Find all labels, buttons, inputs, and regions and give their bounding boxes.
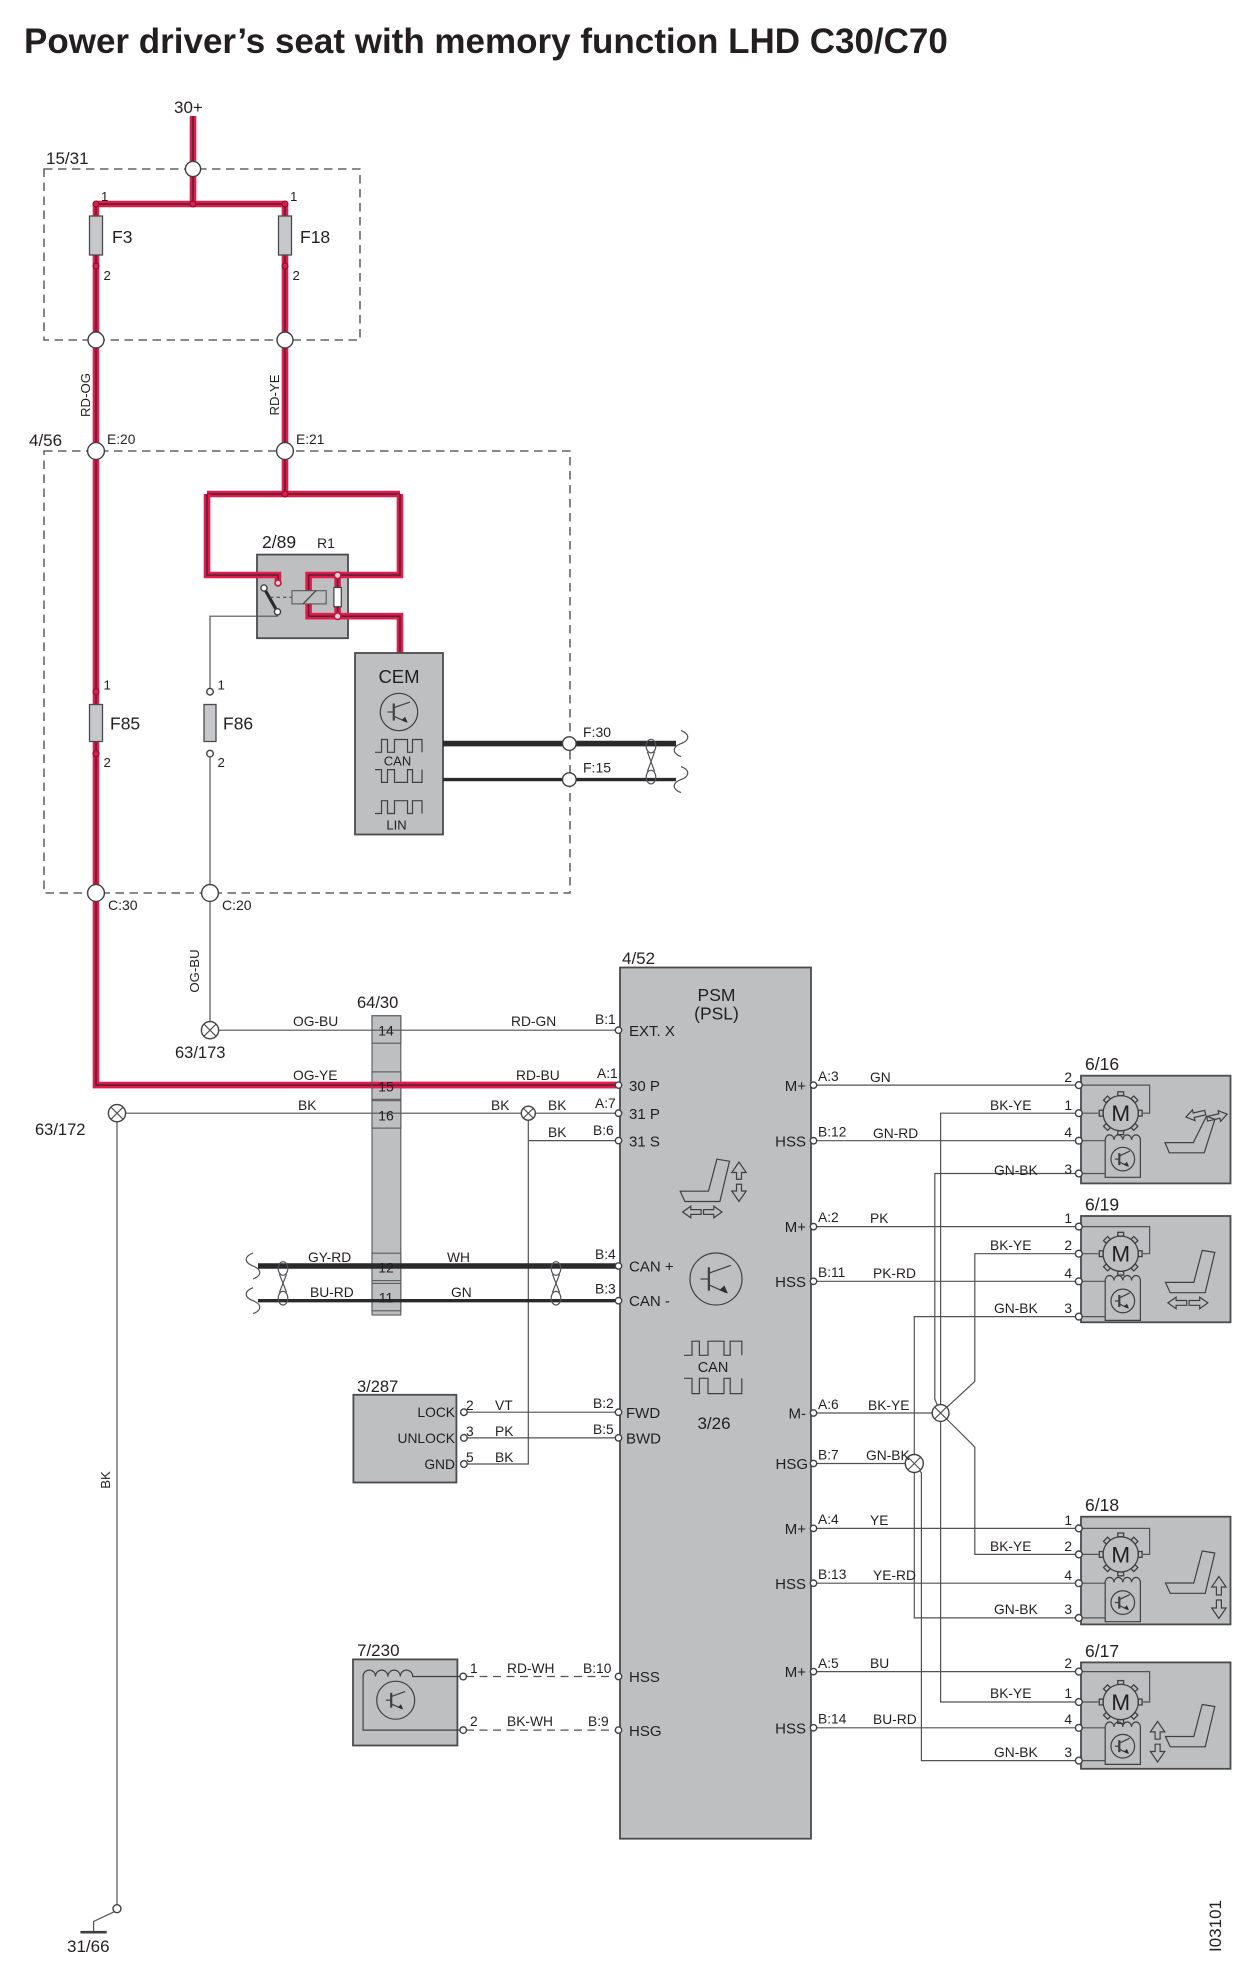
connector 64/30 — [372, 1016, 401, 1315]
CEM driver transistor — [380, 693, 417, 730]
pin 16 — [372, 1101, 401, 1128]
svg-text:2: 2 — [104, 755, 111, 770]
svg-text:6/19: 6/19 — [1085, 1195, 1119, 1215]
clutch K — [1105, 1577, 1140, 1621]
motor M — [1103, 1096, 1138, 1131]
motor M — [1103, 1684, 1138, 1719]
7/230 coil + transistor — [363, 1670, 462, 1730]
svg-text:GND: GND — [424, 1457, 455, 1472]
svg-text:E:20: E:20 — [107, 432, 136, 447]
svg-text:B:5: B:5 — [593, 1422, 614, 1437]
svg-text:LOCK: LOCK — [417, 1405, 455, 1420]
ground 31/66 — [94, 1912, 115, 1933]
wire M+ A:4 YE to 6/18 pin1 — [815, 1527, 1078, 1529]
wire M+ A:5 BU to 6/17 pin2 — [815, 1671, 1078, 1673]
svg-text:F85: F85 — [110, 714, 140, 734]
svg-text:GN-BK: GN-BK — [994, 1163, 1038, 1178]
svg-text:B:2: B:2 — [593, 1396, 614, 1411]
fuse F86 — [207, 688, 214, 695]
svg-text:3/287: 3/287 — [357, 1378, 398, 1396]
seat motor 6/16 — [1081, 1076, 1231, 1184]
svg-text:A:4: A:4 — [818, 1512, 839, 1527]
svg-text:BK-YE: BK-YE — [990, 1098, 1031, 1113]
wire CAN+ GY-RD/WH (thick) — [258, 1263, 616, 1269]
wire to clutch — [1081, 1727, 1105, 1729]
pin LOCK 2 / wire VT — [464, 1411, 616, 1413]
wire HSS B:13 YE-RD to 6/18 pin4 — [815, 1582, 1078, 1584]
wire BK-YE branch to 6/19 pin2 — [941, 1254, 1077, 1413]
svg-text:4: 4 — [1064, 1712, 1072, 1727]
svg-text:15: 15 — [378, 1079, 394, 1095]
svg-text:GN-BK: GN-BK — [994, 1602, 1038, 1617]
svg-text:CAN: CAN — [698, 1360, 729, 1376]
wire break F:30 — [674, 731, 688, 757]
wire GN-BK net 6/19 pin3 to 6/18 pin3 — [914, 1317, 1077, 1618]
seat icon — [1166, 1705, 1215, 1747]
svg-text:6/16: 6/16 — [1085, 1054, 1119, 1074]
svg-text:31/66: 31/66 — [67, 1937, 110, 1956]
fuse F3 — [93, 204, 100, 340]
svg-text:BK: BK — [495, 1450, 514, 1465]
junction connector 15/31 bottom right — [282, 340, 289, 451]
twisted pair symbol left — [278, 1262, 288, 1276]
svg-text:BK: BK — [98, 1471, 113, 1489]
pin 2 / wire BK-WH (dashed) — [466, 1729, 613, 1731]
svg-text:HSS: HSS — [629, 1669, 660, 1686]
relay pins (red) — [275, 580, 281, 586]
svg-text:A:7: A:7 — [595, 1096, 616, 1111]
svg-text:UNLOCK: UNLOCK — [398, 1431, 456, 1446]
svg-text:HSS: HSS — [775, 1274, 806, 1291]
svg-text:GN-RD: GN-RD — [873, 1126, 918, 1141]
motor M — [1103, 1537, 1138, 1572]
svg-text:14: 14 — [378, 1023, 394, 1039]
wire break BU-RD — [246, 1288, 260, 1314]
svg-text:M: M — [1111, 1542, 1130, 1567]
svg-text:1: 1 — [101, 189, 108, 204]
svg-text:BK: BK — [491, 1098, 510, 1113]
wire BK down to ground — [116, 1113, 118, 1909]
relay coil — [292, 591, 326, 604]
wire F:15 — [443, 778, 676, 781]
svg-text:HSG: HSG — [775, 1456, 808, 1473]
pin UNLOCK 3 / wire PK — [464, 1437, 616, 1439]
connector F:15 — [563, 773, 577, 787]
fuse box 15/31 (dashed) — [44, 169, 360, 340]
svg-text:GY-RD: GY-RD — [308, 1250, 351, 1265]
wire BK to 31S and 3/287 GND — [464, 1113, 528, 1464]
svg-text:4: 4 — [1064, 1125, 1072, 1140]
svg-text:3: 3 — [1064, 1602, 1072, 1617]
svg-text:BU-RD: BU-RD — [873, 1712, 917, 1727]
pin 1 / wire RD-WH (dashed) — [466, 1676, 613, 1678]
wire M+ A:3 GN to 6/16 pin2 — [815, 1084, 1078, 1086]
seat icon — [1166, 1250, 1215, 1292]
svg-text:LIN: LIN — [386, 818, 406, 833]
svg-text:RD-BU: RD-BU — [516, 1068, 560, 1083]
svg-text:M+: M+ — [785, 1219, 806, 1236]
motor loop wire — [1081, 1227, 1150, 1254]
wire to clutch — [1081, 1280, 1105, 1282]
PSM seat adjust icon — [680, 1159, 729, 1201]
svg-text:B:9: B:9 — [588, 1714, 609, 1729]
wire HSS B:14 BU-RD to 6/17 pin4 — [815, 1727, 1078, 1729]
PSM CAN symbol — [684, 1341, 742, 1355]
svg-text:1: 1 — [290, 189, 297, 204]
svg-text:B:3: B:3 — [595, 1282, 616, 1297]
wire relay internal (red) — [309, 575, 338, 616]
svg-text:F:15: F:15 — [583, 760, 611, 776]
svg-text:1: 1 — [218, 678, 225, 693]
svg-text:M+: M+ — [785, 1521, 806, 1538]
junction dot at 30+ bar — [190, 201, 196, 207]
svg-text:RD-OG: RD-OG — [78, 373, 93, 417]
wire HSG B:7 GN-BK to splice — [815, 1463, 915, 1465]
svg-text:2: 2 — [293, 268, 300, 283]
svg-text:GN: GN — [451, 1285, 472, 1300]
splice HSG (crossed) — [905, 1455, 923, 1473]
svg-text:4: 4 — [1064, 1568, 1072, 1583]
relay switch contact — [264, 588, 277, 612]
svg-text:OG-BU: OG-BU — [293, 1014, 338, 1029]
clutch K — [1105, 1722, 1140, 1764]
wire BK row 31P — [117, 1112, 616, 1114]
wire F86 to C:20 — [209, 757, 211, 1030]
svg-text:PK: PK — [495, 1424, 514, 1439]
switch module 3/287 — [353, 1395, 456, 1483]
splice M- (crossed) — [932, 1405, 949, 1422]
connector C:20 — [202, 885, 219, 902]
svg-text:Power driver’s seat with memor: Power driver’s seat with memory function… — [24, 22, 948, 61]
svg-text:2: 2 — [1064, 1539, 1072, 1554]
pins — [1075, 1223, 1082, 1230]
PSM pin circles left — [615, 1027, 621, 1033]
svg-text:BK: BK — [548, 1098, 567, 1113]
svg-text:B:12: B:12 — [818, 1125, 846, 1140]
svg-text:B:11: B:11 — [818, 1265, 845, 1280]
svg-text:B:7: B:7 — [818, 1448, 839, 1463]
relay resistor — [334, 588, 341, 607]
svg-text:63/172: 63/172 — [35, 1121, 85, 1139]
svg-text:B:14: B:14 — [818, 1712, 847, 1727]
control module CEM — [355, 653, 443, 835]
svg-text:GN-BK: GN-BK — [866, 1448, 910, 1463]
wire BK-YE branch to 6/18 pin2 — [941, 1413, 1077, 1554]
svg-text:CAN +: CAN + — [629, 1259, 674, 1276]
sensor module 7/230 — [353, 1659, 457, 1745]
pin 14 — [372, 1016, 401, 1043]
svg-text:2: 2 — [1064, 1656, 1072, 1671]
svg-text:2: 2 — [218, 755, 225, 770]
svg-text:31 P: 31 P — [629, 1106, 660, 1123]
wire battery feed via F85 (red) — [93, 451, 100, 893]
svg-text:1: 1 — [104, 678, 111, 693]
wire RD-YE from E:21 to relay (red) — [282, 451, 289, 494]
twisted pair symbol — [646, 739, 656, 753]
svg-text:1: 1 — [470, 1661, 478, 1676]
wire CAN F:30 (thick) — [443, 741, 676, 747]
svg-text:BK-YE: BK-YE — [990, 1539, 1031, 1554]
svg-text:11: 11 — [379, 1290, 394, 1306]
relay coil link (dashed) — [270, 596, 292, 598]
svg-text:C:30: C:30 — [108, 897, 138, 913]
wire BK-YE net 6/16 pin1 to 6/17 pin1 — [941, 1113, 1077, 1702]
svg-text:BK-YE: BK-YE — [868, 1398, 909, 1413]
seat motor 6/18 — [1081, 1517, 1231, 1625]
wire OG-BU / RD-GN row to EXT.X — [210, 1029, 616, 1031]
junction box 4/56 (dashed) — [44, 451, 570, 893]
relay switch to F86 wire — [210, 614, 278, 692]
relay 2/89 R1 — [257, 555, 348, 639]
svg-text:3: 3 — [1064, 1301, 1072, 1316]
PSM pin circles right — [810, 1082, 816, 1088]
svg-text:3: 3 — [1064, 1162, 1072, 1177]
wire GN-BK 6/16 pin3 to M- splice — [935, 1174, 1077, 1414]
svg-text:BK-WH: BK-WH — [507, 1714, 553, 1729]
svg-text:WH: WH — [447, 1250, 470, 1265]
CEM CAN symbol — [375, 740, 422, 753]
svg-text:1: 1 — [1064, 1686, 1072, 1701]
svg-text:B:13: B:13 — [818, 1567, 847, 1582]
wire M+ A:2 PK to 6/19 pin1 — [815, 1226, 1078, 1228]
motor loop wire — [1081, 1528, 1150, 1554]
wire BK through pin 16 — [372, 1112, 401, 1114]
CEM LIN symbol — [375, 801, 422, 814]
svg-text:BK-YE: BK-YE — [990, 1238, 1031, 1253]
svg-text:BU: BU — [870, 1656, 889, 1671]
svg-text:F:30: F:30 — [583, 724, 611, 740]
svg-text:GN: GN — [870, 1070, 891, 1085]
svg-text:GN-BK: GN-BK — [994, 1301, 1038, 1316]
fuse F18 — [282, 204, 289, 340]
wire HSS B:11 PK-RD to 6/19 pin4 — [815, 1280, 1078, 1282]
motor M — [1103, 1236, 1138, 1271]
svg-text:M+: M+ — [785, 1664, 806, 1681]
wire to clutch — [1081, 1582, 1105, 1584]
wire RD-GN through pin 14 — [372, 1029, 401, 1031]
clutch K — [1105, 1135, 1140, 1177]
seat icon — [1166, 1551, 1215, 1593]
connector F:30 — [563, 737, 577, 751]
svg-text:I03101: I03101 — [1206, 1900, 1225, 1952]
svg-text:A:1: A:1 — [597, 1066, 618, 1081]
svg-text:4/56: 4/56 — [29, 431, 62, 450]
svg-text:30 P: 30 P — [629, 1078, 660, 1095]
svg-text:B:10: B:10 — [583, 1661, 612, 1676]
svg-text:2: 2 — [470, 1714, 478, 1729]
svg-text:A:3: A:3 — [818, 1069, 839, 1084]
pin 11 — [372, 1283, 401, 1310]
svg-text:12: 12 — [378, 1260, 394, 1276]
svg-text:BK-YE: BK-YE — [990, 1686, 1031, 1701]
junction connector 15/31 bottom left — [93, 340, 100, 451]
svg-text:A:5: A:5 — [818, 1656, 839, 1671]
svg-text:4/52: 4/52 — [622, 949, 655, 968]
svg-text:VT: VT — [495, 1398, 513, 1413]
svg-text:2: 2 — [1064, 1238, 1072, 1253]
svg-text:E:21: E:21 — [296, 432, 324, 447]
seat motor 6/17 — [1081, 1662, 1231, 1768]
svg-text:M+: M+ — [785, 1078, 806, 1095]
svg-text:B:4: B:4 — [595, 1247, 616, 1262]
svg-text:HSG: HSG — [629, 1723, 662, 1740]
svg-text:BU-RD: BU-RD — [310, 1285, 354, 1300]
svg-text:F86: F86 — [223, 714, 253, 734]
svg-text:31 S: 31 S — [629, 1134, 660, 1151]
svg-text:A:6: A:6 — [818, 1397, 839, 1412]
svg-text:OG-BU: OG-BU — [187, 949, 202, 992]
svg-text:15/31: 15/31 — [46, 149, 89, 168]
wire CAN- BU-RD/GN — [258, 1299, 616, 1302]
svg-text:RD-WH: RD-WH — [507, 1661, 555, 1676]
junction 30+ feed — [185, 161, 200, 176]
svg-text:RD-GN: RD-GN — [511, 1014, 556, 1029]
svg-text:YE-RD: YE-RD — [873, 1568, 916, 1583]
wire break GY-RD — [246, 1253, 260, 1279]
motor loop wire — [1081, 1672, 1150, 1702]
svg-text:HSS: HSS — [775, 1721, 806, 1738]
svg-text:M: M — [1111, 1101, 1130, 1126]
svg-text:1: 1 — [1064, 1211, 1072, 1226]
svg-text:A:2: A:2 — [818, 1210, 839, 1225]
svg-text:PK-RD: PK-RD — [873, 1266, 916, 1281]
svg-text:2/89: 2/89 — [262, 532, 296, 552]
svg-text:C:20: C:20 — [222, 897, 252, 913]
svg-text:3: 3 — [1064, 1745, 1072, 1760]
svg-text:HSS: HSS — [775, 1576, 806, 1593]
pin 15 — [372, 1072, 401, 1099]
svg-text:1: 1 — [1064, 1513, 1072, 1528]
wire OG-YE to PSM 30P (red) — [96, 893, 616, 1085]
motor loop wire — [1081, 1085, 1150, 1113]
svg-text:M-: M- — [789, 1406, 807, 1423]
svg-text:OG-YE: OG-YE — [293, 1068, 337, 1083]
svg-text:2: 2 — [104, 268, 111, 283]
svg-text:M: M — [1111, 1242, 1130, 1267]
svg-text:1: 1 — [1064, 1098, 1072, 1113]
svg-text:CAN: CAN — [384, 754, 411, 769]
svg-text:M: M — [1111, 1690, 1130, 1715]
svg-text:BWD: BWD — [626, 1431, 661, 1448]
svg-text:64/30: 64/30 — [357, 994, 398, 1012]
wire GN-BK branch to 6/17 pin3 — [914, 1464, 1077, 1761]
svg-text:RD-YE: RD-YE — [267, 374, 282, 415]
svg-text:PK: PK — [870, 1211, 889, 1226]
svg-text:BK: BK — [548, 1125, 567, 1140]
svg-text:F18: F18 — [300, 227, 330, 247]
svg-text:PSM: PSM — [698, 985, 736, 1005]
svg-text:2: 2 — [1064, 1070, 1072, 1085]
svg-text:YE: YE — [870, 1513, 888, 1528]
wire HSS B:12 GN-RD to 6/16 pin4 — [815, 1140, 1078, 1142]
svg-text:FWD: FWD — [626, 1405, 660, 1422]
svg-text:CAN -: CAN - — [629, 1293, 670, 1310]
svg-text:CEM: CEM — [378, 666, 419, 687]
PSM driver transistor — [690, 1253, 742, 1305]
svg-text:6/17: 6/17 — [1085, 1641, 1119, 1661]
control module PSM 4/52 — [620, 968, 811, 1839]
wire fuse feed bar (red) — [96, 201, 285, 208]
svg-text:B:1: B:1 — [595, 1012, 616, 1027]
svg-text:3/26: 3/26 — [697, 1414, 730, 1433]
fuse F85 — [93, 689, 99, 695]
connector C:30 — [88, 885, 105, 902]
svg-text:16: 16 — [378, 1107, 394, 1123]
svg-text:BK: BK — [298, 1098, 317, 1113]
wire to clutch — [1081, 1140, 1105, 1142]
svg-text:7/230: 7/230 — [357, 1641, 400, 1660]
pins — [1075, 1525, 1082, 1532]
wire break F:15 — [674, 767, 688, 793]
wire M- A:6 BK-YE to splice — [815, 1412, 941, 1414]
wire relay supply loop (red) — [207, 491, 400, 498]
pins — [1075, 1668, 1082, 1675]
svg-text:63/173: 63/173 — [175, 1044, 225, 1062]
wire relay contact to CEM (red) — [338, 616, 400, 653]
svg-text:(PSL): (PSL) — [694, 1004, 739, 1024]
seat icon — [1165, 1116, 1215, 1153]
pin 12 — [372, 1253, 401, 1280]
svg-text:B:6: B:6 — [593, 1123, 614, 1138]
svg-text:4: 4 — [1064, 1266, 1072, 1281]
seat motor 6/19 — [1081, 1216, 1231, 1322]
svg-text:6/18: 6/18 — [1085, 1495, 1119, 1515]
svg-text:GN-BK: GN-BK — [994, 1745, 1038, 1760]
clutch K — [1105, 1276, 1140, 1321]
svg-text:HSS: HSS — [775, 1134, 806, 1151]
wire 30+ feed (red) — [190, 116, 197, 204]
twisted pair symbol right — [551, 1262, 561, 1276]
svg-text:EXT. X: EXT. X — [629, 1023, 675, 1040]
svg-text:30+: 30+ — [174, 98, 203, 117]
splice 63/172 — [108, 1105, 125, 1122]
svg-text:R1: R1 — [317, 535, 335, 551]
svg-text:F3: F3 — [112, 227, 132, 247]
wire 30P (red) through pin 15 — [372, 1082, 616, 1089]
pins — [1075, 1082, 1082, 1089]
